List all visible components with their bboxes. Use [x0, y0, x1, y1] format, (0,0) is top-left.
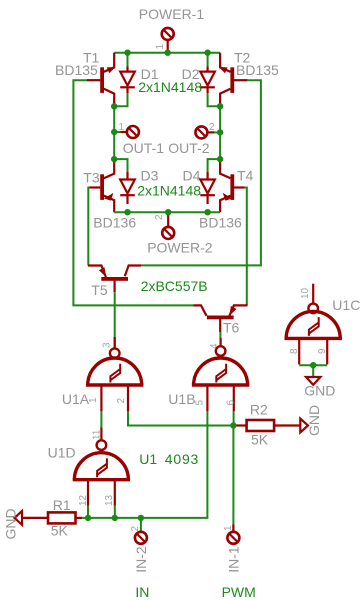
svg-text:5K: 5K: [51, 522, 69, 538]
svg-text:2xBC557B: 2xBC557B: [141, 278, 208, 294]
svg-text:BD135: BD135: [236, 62, 279, 78]
svg-text:IN: IN: [135, 584, 149, 600]
svg-text:2: 2: [130, 526, 141, 532]
transistor T1: [87, 53, 114, 107]
wire U1B pin5 down to IN row: [141, 411, 208, 518]
node junction dot U1C inputs: [310, 362, 316, 368]
node junction dot D1 top: [124, 50, 130, 56]
svg-text:U1C: U1C: [332, 297, 360, 313]
node junction dot U1D pin13: [112, 515, 118, 521]
node junction dot D4 bottom: [204, 209, 210, 215]
svg-text:11: 11: [92, 429, 103, 440]
node junction dot POWER-2: [165, 209, 171, 215]
svg-text:4093: 4093: [165, 451, 199, 467]
svg-text:D4: D4: [183, 168, 201, 184]
svg-text:D3: D3: [141, 168, 159, 184]
op-amp U1D nand gate: [73, 428, 130, 506]
node junction dot OUT-1 top: [111, 103, 117, 109]
svg-text:T4: T4: [237, 168, 254, 184]
svg-text:10: 10: [300, 287, 311, 299]
svg-text:BD136: BD136: [93, 215, 136, 231]
transistor T5: [88, 266, 141, 293]
svg-text:4: 4: [209, 343, 220, 349]
wire R2 node down to IN-1: [232, 426, 234, 532]
svg-text:R2: R2: [250, 402, 268, 418]
svg-text:OUT-2: OUT-2: [168, 140, 209, 156]
op-amp U1B nand gate: [192, 338, 249, 411]
svg-text:R1: R1: [53, 497, 71, 513]
svg-text:BD135: BD135: [55, 62, 98, 78]
svg-text:U1D: U1D: [48, 445, 76, 461]
svg-text:IN-2: IN-2: [133, 546, 149, 573]
svg-text:9: 9: [317, 348, 328, 354]
svg-text:3: 3: [102, 342, 113, 348]
svg-text:2: 2: [154, 214, 165, 220]
transistor T6: [194, 305, 248, 332]
supply OUT-1: [114, 126, 139, 138]
svg-text:U1: U1: [139, 451, 157, 467]
svg-text:T3: T3: [83, 170, 100, 186]
op-amp U1A nand gate: [86, 337, 143, 411]
svg-text:2: 2: [116, 398, 127, 404]
wire U1A pin2 to R2 node: [128, 411, 233, 426]
diode D2: [200, 53, 215, 93]
supply IN-1: [227, 525, 239, 544]
op-amp U1C nand gate: [285, 284, 342, 365]
svg-text:U1A: U1A: [62, 391, 90, 407]
wire D2 bottom to T2 collector: [208, 93, 221, 106]
svg-text:2x1N4148: 2x1N4148: [137, 182, 201, 198]
wire U1C tie to ground: [312, 365, 314, 376]
node junction dot IN-2: [138, 515, 144, 521]
node junction dot U1D pin12: [85, 515, 91, 521]
wire OUT-1 column: [113, 106, 115, 159]
wire OUT-2 column: [219, 106, 221, 159]
svg-text:D2: D2: [182, 66, 200, 82]
wire T5 base to U1A output: [114, 292, 116, 348]
supply POWER-2: [162, 212, 174, 239]
supply POWER-1: [162, 28, 174, 53]
svg-text:POWER-2: POWER-2: [147, 240, 213, 256]
wire U1C inputs tie: [299, 364, 327, 366]
diode D4: [200, 172, 215, 204]
svg-text:1: 1: [223, 525, 234, 531]
node junction dot R2 IN-1: [230, 422, 236, 428]
svg-text:12: 12: [78, 494, 89, 506]
node junction dot POWER-1: [165, 50, 171, 56]
ground GND right: [300, 419, 308, 433]
svg-text:1: 1: [119, 122, 125, 133]
wire T4 top to D4: [208, 159, 221, 172]
svg-text:5K: 5K: [251, 431, 269, 447]
svg-text:5: 5: [195, 400, 206, 406]
svg-text:GND: GND: [3, 508, 19, 539]
wire U1A pin1 to U1D pin11: [100, 411, 102, 428]
supply IN-2: [135, 518, 147, 544]
svg-text:U1B: U1B: [168, 391, 195, 407]
diode D1: [120, 53, 135, 93]
svg-text:IN-1: IN-1: [226, 546, 242, 573]
wire T6 base to U1B output: [219, 332, 221, 338]
svg-text:GND: GND: [306, 405, 322, 436]
svg-text:6: 6: [226, 400, 237, 406]
svg-text:8: 8: [289, 348, 300, 354]
wire T2 base right rail down to T5 collector: [141, 80, 261, 265]
node junction dot OUT-2 top: [217, 103, 223, 109]
wire top POWER-1 rail: [114, 52, 220, 54]
node junction dot OUT-2 stub: [217, 129, 223, 135]
node junction dot D3 bottom: [124, 209, 130, 215]
node junction dot OUT-1 stub: [111, 129, 117, 135]
wire IN row: [82, 517, 141, 519]
wire T3 base down to T5 emitter: [88, 188, 89, 266]
wire T3 top to D3: [114, 159, 127, 172]
supply OUT-2: [195, 126, 220, 138]
transistor T3: [90, 159, 115, 212]
svg-text:BD136: BD136: [199, 215, 242, 231]
wire U1D legs to IN row: [87, 506, 89, 518]
svg-text:T6: T6: [223, 319, 240, 335]
svg-text:GND: GND: [304, 383, 335, 399]
svg-text:T5: T5: [91, 282, 108, 298]
transistor T4: [220, 159, 245, 212]
wire POWER-2 rail: [114, 211, 220, 213]
ground GND U1C: [306, 377, 320, 385]
resistor R1: [22, 512, 82, 523]
transistor T2: [220, 53, 247, 107]
svg-text:1: 1: [155, 44, 166, 50]
diode D3: [120, 172, 135, 204]
wire T1 base to left rail: [73, 80, 193, 305]
node junction dot T4 top: [217, 156, 223, 162]
wire T4 base down to T6 emitter: [245, 188, 247, 306]
ground GND left: [15, 511, 23, 525]
wire D1 bottom to T1 collector: [114, 93, 127, 106]
node junction dot T3 top: [111, 156, 117, 162]
svg-text:OUT-1: OUT-1: [123, 140, 164, 156]
wire U1B pin6 to R2 node: [233, 411, 235, 426]
svg-text:POWER-1: POWER-1: [139, 6, 205, 22]
svg-text:2: 2: [209, 122, 215, 133]
svg-text:1: 1: [88, 397, 99, 403]
resistor R2: [236, 420, 300, 431]
node junction dot D2 top: [204, 50, 210, 56]
svg-text:PWM: PWM: [222, 584, 256, 600]
svg-text:13: 13: [104, 494, 115, 506]
